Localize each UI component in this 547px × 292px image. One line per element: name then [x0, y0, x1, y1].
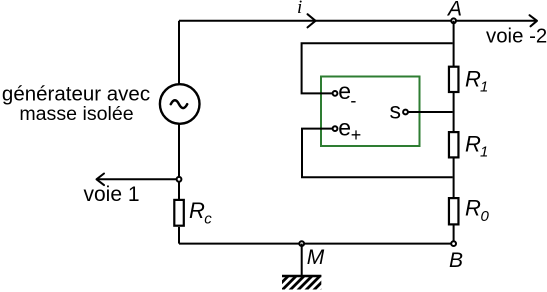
- wire e+ to rail bottom loop: [302, 129, 453, 178]
- wire left vertical top: [178, 21, 180, 84]
- generator G: [160, 84, 200, 124]
- voie 1 arrow: [97, 174, 179, 186]
- wire below Rc: [178, 227, 180, 244]
- svg-text:e: e: [338, 115, 351, 141]
- svg-text:A: A: [446, 0, 462, 21]
- svg-text:masse isolée: masse isolée: [19, 103, 133, 125]
- svg-text:voie 1: voie 1: [84, 183, 140, 206]
- resistor R1 top: [449, 67, 459, 92]
- terminal s: [403, 110, 408, 115]
- wire rail between R1 and R1: [453, 93, 455, 131]
- svg-text:1: 1: [480, 79, 488, 96]
- svg-text:i: i: [297, 0, 302, 18]
- svg-text:s: s: [390, 97, 402, 123]
- label e+: [338, 115, 361, 145]
- svg-text:voie -2: voie -2: [486, 26, 547, 48]
- wire rail between R1 and R0: [453, 159, 455, 198]
- voie -2 output arrow: [454, 15, 537, 26]
- wire top from generator to node A: [179, 20, 453, 22]
- op-amp U1 box: [321, 77, 420, 147]
- node M: [299, 241, 304, 246]
- resistor R1 bottom: [449, 132, 459, 157]
- svg-text:R: R: [189, 198, 205, 223]
- svg-text:+: +: [351, 125, 362, 145]
- label e-: [338, 78, 356, 111]
- svg-text:e: e: [338, 78, 351, 104]
- svg-text:R: R: [465, 67, 481, 92]
- label R1 bottom: [465, 132, 488, 161]
- wire bottom: [179, 243, 454, 245]
- label R1 top: [465, 67, 488, 96]
- svg-text:1: 1: [480, 144, 488, 161]
- svg-text:-: -: [350, 91, 356, 111]
- node B: [451, 241, 456, 246]
- label Rc: [189, 198, 212, 227]
- wire rail R0 to B: [453, 225, 455, 244]
- svg-text:générateur avec: générateur avec: [2, 83, 150, 106]
- node voie1 junction: [177, 177, 182, 182]
- wire e- to rail top loop: [302, 43, 453, 93]
- current arrow i: [308, 14, 316, 27]
- resistor R0: [449, 198, 459, 224]
- terminal e-: [333, 91, 338, 96]
- svg-text:M: M: [307, 246, 325, 269]
- svg-text:R: R: [465, 132, 481, 157]
- terminal e+: [333, 126, 338, 131]
- svg-text:B: B: [449, 249, 463, 272]
- label generateur avec masse isolee: [2, 83, 150, 126]
- ground: [282, 244, 321, 290]
- wire s to rail: [408, 111, 452, 113]
- svg-text:0: 0: [481, 208, 490, 225]
- node A: [451, 18, 456, 23]
- label R0: [465, 196, 490, 226]
- svg-text:c: c: [204, 210, 212, 227]
- svg-text:R: R: [465, 196, 481, 221]
- resistor Rc: [174, 200, 184, 226]
- wire rail A to R1 top: [453, 21, 455, 67]
- wire left vertical bottom: [178, 124, 180, 200]
